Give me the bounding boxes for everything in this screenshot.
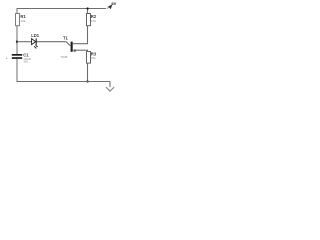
wire left rail mid <box>16 26 18 55</box>
LED LD1 <box>31 33 40 48</box>
resistor R1 <box>16 14 27 26</box>
svg-text:47k: 47k <box>91 56 96 60</box>
wire top rail <box>17 8 106 10</box>
svg-text:470: 470 <box>91 19 96 23</box>
resistor R2 <box>87 14 97 26</box>
svg-text:LD1: LD1 <box>31 33 40 38</box>
transistor T1 <box>61 35 77 59</box>
svg-text:16V: 16V <box>23 60 28 64</box>
node junction left <box>16 41 18 43</box>
svg-text:T045: T045 <box>61 55 68 59</box>
wire emitter <box>73 50 88 51</box>
node junction bottom <box>86 80 88 82</box>
wire right rail upper <box>87 8 89 14</box>
wire left rail lower <box>16 59 18 82</box>
wire LED anode <box>17 41 32 43</box>
resistor R3 <box>87 51 97 63</box>
svg-text:9V: 9V <box>111 1 116 6</box>
wire bottom rail <box>17 81 111 83</box>
power supply 9V <box>107 1 117 9</box>
svg-text:T1: T1 <box>63 35 69 40</box>
wire collector <box>73 26 88 44</box>
wire LED cathode to base <box>37 42 71 46</box>
wire left rail upper <box>16 8 18 14</box>
svg-text:+: + <box>6 57 8 61</box>
svg-text:12k: 12k <box>20 19 25 23</box>
ground symbol <box>106 87 114 91</box>
wire R3 to bottom rail <box>87 63 89 82</box>
wire ground stem <box>109 82 111 88</box>
capacitor C1 <box>6 53 32 64</box>
node junction top right <box>86 7 88 9</box>
